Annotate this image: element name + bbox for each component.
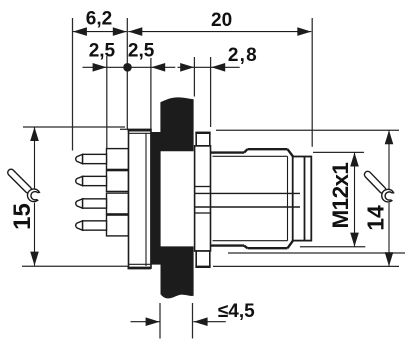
panel upper part (black, broken edge) (160, 97, 193, 151)
flange (black) (150, 132, 160, 265)
svg-text:20: 20 (211, 10, 232, 31)
pin 3 (76, 193, 129, 214)
center slot band (195, 193, 300, 207)
dimension M12x1 line (354, 153, 356, 247)
pin 2 (76, 171, 129, 192)
svg-text:14: 14 (363, 205, 389, 231)
pin 1 (76, 149, 129, 170)
arrowheads 6,2 (73, 27, 127, 36)
extension line thread top y=152.2 (313, 151, 364, 153)
svg-text:15: 15 (9, 203, 36, 230)
svg-text:6,2: 6,2 (86, 8, 112, 29)
extension line hex bottom right y=267.3 (213, 265, 399, 267)
wrench icon left (4, 165, 44, 205)
center reference line x=127.3 (126, 18, 128, 130)
dimension 14 line (388, 130, 390, 266)
extension line sleeve front x=106.8 (106, 56, 108, 148)
svg-text:2,8: 2,8 (228, 45, 258, 66)
node dot on center line (123, 63, 132, 72)
insert body (128, 130, 152, 269)
svg-text:2,5: 2,5 (128, 41, 155, 62)
arrowheads 20 (128, 27, 311, 36)
extension line flange bottom y=266.3 (22, 265, 128, 267)
extension line hex right x=210.6 (210, 57, 212, 127)
hidden bore line right (228, 252, 405, 254)
extension line pin tip x=72.5 (72, 18, 74, 151)
dimension 2,8 line (178, 66, 240, 68)
dimension 15 line (34, 127, 36, 266)
dimension 4,5 line (131, 321, 226, 323)
thread relief lines (213, 156, 288, 240)
pin 4 (76, 215, 129, 236)
extension line panel left bottom x=160 (159, 303, 161, 339)
wrench icon right (360, 167, 398, 205)
panel lower part (black, broken edge) (161, 246, 194, 298)
svg-text:M12x1: M12x1 (328, 163, 353, 229)
body top edge stub (120, 128, 129, 130)
dimension 6,2 line (73, 31, 127, 33)
neck (unthreaded collar) (211, 153, 245, 246)
svg-text:2,5: 2,5 (89, 41, 116, 62)
extension line connector end x=312.2 (311, 18, 313, 147)
hex nut (195, 133, 211, 267)
svg-text:≤4,5: ≤4,5 (218, 301, 255, 322)
extension line panel right x=194.4 (193, 57, 195, 97)
extension line flange top y=127 (23, 126, 125, 128)
extension line thread bottom y=247 (300, 246, 365, 248)
extension line panel right bottom x=192.5 (192, 303, 194, 339)
dimension 2,5 2,5 line (83, 66, 176, 68)
extension line body rear x=150.9 (150, 58, 152, 132)
extension line hex top right y=129.6 (216, 129, 399, 131)
dimension 20 line (128, 31, 311, 33)
threaded barrel (244, 149, 293, 248)
end cap (293, 157, 312, 241)
